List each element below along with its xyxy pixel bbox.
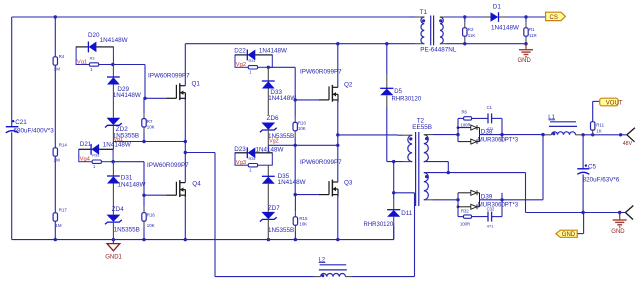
svg-text:R16: R16 bbox=[147, 212, 156, 217]
svg-text:EE55B: EE55B bbox=[412, 124, 432, 131]
svg-text:R34: R34 bbox=[249, 157, 256, 161]
svg-text:R3: R3 bbox=[90, 56, 95, 60]
svg-text:D38: D38 bbox=[481, 128, 493, 135]
svg-text:D21: D21 bbox=[80, 141, 92, 148]
svg-text:1M: 1M bbox=[53, 158, 60, 163]
svg-text:R2: R2 bbox=[468, 27, 474, 32]
svg-text:MUR3060PT*3: MUR3060PT*3 bbox=[478, 202, 519, 208]
svg-text:C5: C5 bbox=[588, 163, 597, 170]
svg-text:R14: R14 bbox=[59, 142, 68, 147]
svg-text:ZD7: ZD7 bbox=[268, 205, 280, 212]
svg-text:IPW60R099P7: IPW60R099P7 bbox=[147, 162, 189, 169]
svg-text:1N4148W: 1N4148W bbox=[100, 37, 128, 44]
svg-text:680uF/400V*3: 680uF/400V*3 bbox=[14, 128, 55, 135]
svg-text:11K: 11K bbox=[468, 33, 476, 38]
svg-text:Vg3: Vg3 bbox=[236, 160, 246, 166]
svg-text:R17: R17 bbox=[59, 208, 68, 213]
svg-text:D39: D39 bbox=[481, 194, 493, 201]
svg-text:10K: 10K bbox=[299, 222, 307, 227]
svg-text:48V: 48V bbox=[623, 141, 633, 147]
svg-text:1N4148W: 1N4148W bbox=[278, 179, 306, 186]
svg-text:D11: D11 bbox=[401, 210, 413, 217]
svg-text:R4: R4 bbox=[59, 54, 65, 59]
svg-text:R1: R1 bbox=[529, 27, 535, 32]
svg-text:IPW60R099P7: IPW60R099P7 bbox=[148, 72, 190, 79]
svg-text:RHR30120: RHR30120 bbox=[364, 222, 394, 228]
svg-text:1N4148W: 1N4148W bbox=[268, 95, 296, 102]
svg-text:1M: 1M bbox=[55, 223, 62, 228]
svg-text:820uF/63V*6: 820uF/63V*6 bbox=[583, 177, 620, 184]
svg-text:471: 471 bbox=[487, 224, 494, 229]
svg-text:100R: 100R bbox=[461, 123, 471, 128]
svg-text:1N5355B: 1N5355B bbox=[114, 226, 140, 233]
svg-text:D1: D1 bbox=[493, 4, 502, 11]
svg-text:Vg2: Vg2 bbox=[269, 139, 278, 145]
svg-text:11R: 11R bbox=[529, 33, 537, 38]
svg-text:R10: R10 bbox=[298, 121, 307, 126]
svg-text:CS: CS bbox=[550, 15, 558, 21]
svg-text:VOUT: VOUT bbox=[606, 100, 623, 106]
svg-text:R6: R6 bbox=[462, 109, 468, 114]
svg-text:1N4148W: 1N4148W bbox=[103, 141, 131, 148]
svg-text:Vg4: Vg4 bbox=[80, 157, 91, 163]
svg-text:GND1: GND1 bbox=[105, 255, 122, 261]
svg-text:R32: R32 bbox=[461, 208, 469, 213]
svg-text:1N4148W: 1N4148W bbox=[259, 47, 287, 54]
svg-text:R7: R7 bbox=[147, 119, 153, 124]
svg-text:1N4148W: 1N4148W bbox=[113, 92, 141, 99]
svg-text:D22: D22 bbox=[234, 47, 246, 54]
svg-text:GND: GND bbox=[562, 232, 576, 238]
svg-text:R11: R11 bbox=[596, 122, 604, 127]
svg-text:R31: R31 bbox=[249, 59, 256, 63]
svg-text:Vg1: Vg1 bbox=[77, 59, 87, 65]
svg-text:PE-64487NL: PE-64487NL bbox=[420, 46, 457, 53]
svg-text:1N4148W: 1N4148W bbox=[118, 181, 146, 188]
svg-text:Vg2: Vg2 bbox=[236, 62, 246, 68]
svg-text:IPW60R099P7: IPW60R099P7 bbox=[300, 68, 342, 75]
svg-text:R33: R33 bbox=[92, 154, 99, 158]
svg-text:Q3: Q3 bbox=[344, 179, 353, 186]
svg-text:1M: 1M bbox=[54, 67, 61, 72]
svg-text:ZD4: ZD4 bbox=[112, 206, 124, 213]
svg-text:D5: D5 bbox=[394, 89, 402, 95]
svg-text:100R: 100R bbox=[460, 221, 470, 226]
svg-text:D20: D20 bbox=[88, 32, 100, 39]
svg-text:10K: 10K bbox=[147, 223, 155, 228]
svg-text:1N5355B: 1N5355B bbox=[268, 227, 294, 234]
svg-text:C1: C1 bbox=[487, 105, 493, 110]
svg-text:GND: GND bbox=[518, 58, 532, 64]
svg-text:1N4148W: 1N4148W bbox=[256, 146, 284, 153]
svg-text:10K: 10K bbox=[147, 125, 155, 130]
svg-text:Q4: Q4 bbox=[192, 180, 201, 187]
svg-text:C21: C21 bbox=[15, 119, 27, 126]
svg-text:Q1: Q1 bbox=[192, 81, 201, 88]
svg-text:C32: C32 bbox=[487, 206, 495, 211]
svg-text:RHR30120: RHR30120 bbox=[392, 96, 422, 102]
svg-text:IPW60R099P7: IPW60R099P7 bbox=[300, 159, 342, 166]
svg-text:D23: D23 bbox=[234, 146, 246, 153]
svg-text:Q2: Q2 bbox=[344, 82, 353, 89]
svg-text:ZD6: ZD6 bbox=[267, 115, 279, 122]
svg-text:1K: 1K bbox=[596, 128, 601, 133]
svg-text:T1: T1 bbox=[420, 9, 428, 16]
svg-text:MUR3060PT*3: MUR3060PT*3 bbox=[478, 138, 519, 144]
svg-text:1N4148W: 1N4148W bbox=[491, 24, 519, 31]
svg-text:R15: R15 bbox=[299, 216, 308, 221]
svg-text:GND: GND bbox=[611, 229, 625, 235]
svg-text:10K: 10K bbox=[298, 126, 306, 131]
